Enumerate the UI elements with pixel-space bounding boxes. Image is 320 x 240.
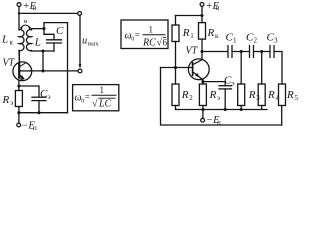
svg-text:к: к <box>215 32 219 40</box>
wire R3 bottom <box>240 106 242 110</box>
svg-text:п: п <box>33 4 37 12</box>
capacitor C2 plates <box>249 46 251 58</box>
node top rail right <box>200 14 203 17</box>
wire emitter to Ce <box>19 86 39 97</box>
node tank bottom <box>41 49 44 52</box>
capacitor C plates <box>47 39 62 41</box>
resistor Re1 lead bottom <box>18 107 20 113</box>
wire R4 bottom <box>261 106 263 110</box>
svg-text:R: R <box>207 27 215 39</box>
svg-text:=: = <box>135 30 140 40</box>
capacitor Ce2 plates <box>219 85 232 87</box>
svg-text:RC: RC <box>142 38 156 49</box>
svg-text:1: 1 <box>190 32 194 40</box>
svg-text:5: 5 <box>295 94 299 102</box>
formula box omega0 LC <box>73 85 119 111</box>
transistor VT1 base bar <box>18 64 20 77</box>
wire feedback loop <box>161 68 282 126</box>
resistor R4 <box>258 84 265 106</box>
svg-text:п: п <box>33 123 37 132</box>
svg-text:2: 2 <box>189 94 193 102</box>
transistor VT1 emitter <box>19 75 23 79</box>
wire emitter to Ce2 <box>203 81 225 83</box>
node L top <box>42 27 45 30</box>
svg-text:м: м <box>24 19 28 25</box>
svg-text:к: к <box>10 39 14 47</box>
svg-text:1: 1 <box>100 85 105 95</box>
resistor R2 <box>172 84 179 106</box>
wire chain to R5 <box>274 52 282 85</box>
svg-text:э: э <box>48 93 51 101</box>
terminal +Ep right <box>200 3 204 7</box>
wire VT2 emitter down <box>202 80 204 84</box>
node after C2 <box>260 50 263 53</box>
capacitor Ce1 bottom lead <box>38 101 40 113</box>
node base-tank junction <box>41 69 44 72</box>
node emitter right <box>201 80 204 83</box>
wire +Ep down right <box>201 6 203 22</box>
inductor L coil <box>26 30 31 51</box>
svg-text:LC: LC <box>98 99 112 110</box>
capacitor Ce1 plates <box>32 96 46 98</box>
wire capacitor C bottom lead <box>53 43 55 51</box>
node after C1 <box>240 50 243 53</box>
wire R1 to base junction <box>175 42 177 68</box>
formula box omega0 RC <box>121 20 168 49</box>
svg-text:R: R <box>267 89 275 101</box>
wire VT1 emitter down <box>18 81 20 86</box>
transistor VT2 collector <box>193 60 202 65</box>
wire capacitor C top lead <box>44 34 54 40</box>
wire -Ep rail A <box>176 109 268 111</box>
node R3 on rail <box>240 108 243 111</box>
svg-text:R: R <box>286 89 294 101</box>
node Ce1 bottom <box>37 111 40 114</box>
resistor R5 <box>279 84 286 106</box>
wire tank left vertical <box>43 23 45 35</box>
node top rail left <box>18 12 20 14</box>
inductor Lk coil <box>19 30 24 51</box>
svg-text:R: R <box>2 94 10 106</box>
resistor Re2 <box>199 84 206 106</box>
wire R3 drop <box>240 52 242 85</box>
svg-text:√: √ <box>92 99 98 110</box>
svg-text:6: 6 <box>163 38 168 48</box>
svg-text:э: э <box>232 80 235 88</box>
wire tank right vertical <box>67 23 69 113</box>
arrow u_vyh head <box>79 64 82 68</box>
svg-text:VT: VT <box>186 46 199 57</box>
wire chain segment 3 <box>254 51 270 53</box>
wire R2 bottom lead <box>175 106 177 110</box>
svg-text:4: 4 <box>276 94 280 102</box>
svg-text:п: п <box>217 119 221 127</box>
svg-text:вых: вых <box>88 40 99 47</box>
svg-text:L: L <box>34 37 41 49</box>
wire base to output <box>30 70 78 72</box>
node base junction right <box>174 66 177 69</box>
wire chain segment 1 <box>202 51 228 53</box>
svg-text:э: э <box>10 99 13 107</box>
node emitter left <box>17 84 20 87</box>
svg-text:2: 2 <box>254 37 258 45</box>
resistor R3 <box>238 84 245 106</box>
wire L top <box>32 29 45 30</box>
terminal output top <box>78 12 82 16</box>
transistor VT2 circle <box>188 59 209 80</box>
node collector junction <box>200 50 203 53</box>
terminal +Ep left <box>17 3 21 7</box>
svg-text:R: R <box>209 89 217 101</box>
transistor VT2 base bar <box>192 63 194 76</box>
svg-text:3: 3 <box>256 94 260 102</box>
wire Rk to collector <box>201 39 203 59</box>
svg-text:п: п <box>216 4 220 12</box>
resistor Rk <box>199 23 206 39</box>
transistor VT1 circle <box>13 62 32 81</box>
resistor Re1 <box>15 91 22 107</box>
svg-text:R: R <box>181 89 189 101</box>
svg-text:R: R <box>248 89 256 101</box>
wire R4 drop <box>261 52 263 85</box>
wire Lk to base of VT <box>18 51 20 62</box>
wire chain segment 2 <box>232 51 249 53</box>
wire tank bottom <box>32 50 55 52</box>
terminal output bottom <box>78 69 82 73</box>
node Re2 on rail <box>201 108 204 111</box>
wire +Ep down <box>18 7 20 30</box>
svg-text:L: L <box>1 34 8 46</box>
wire output arrow line <box>79 15 81 65</box>
resistor R1 lead top <box>175 16 177 26</box>
wire L bottom stub <box>31 50 33 53</box>
wire tank-bottom to base <box>42 51 44 71</box>
svg-text:R: R <box>182 27 190 39</box>
capacitor C3 plates <box>269 46 271 58</box>
transistor VT1 collector <box>18 51 20 65</box>
terminal -Ep left <box>18 113 20 123</box>
wire tank top rail <box>44 22 68 24</box>
wire R5 bottom to rail B <box>281 106 283 126</box>
svg-text:=: = <box>85 92 90 102</box>
wire bottom rail left circuit <box>19 112 68 114</box>
capacitor Ce2 bottom lead <box>224 89 226 110</box>
terminal -Ep right <box>202 110 204 119</box>
transistor VT2 base wire <box>161 67 193 69</box>
wire R2 top lead <box>175 68 177 85</box>
svg-text:э: э <box>217 94 220 102</box>
node Re1 bottom rail <box>17 111 20 114</box>
wire top rail <box>19 12 78 14</box>
node Ce2 on rail <box>224 108 227 111</box>
wire Re2 bottom lead <box>202 106 204 110</box>
capacitor Ce2 top lead <box>224 82 226 86</box>
svg-text:u: u <box>82 36 87 47</box>
svg-text:1: 1 <box>233 37 237 45</box>
svg-text:C: C <box>56 25 64 37</box>
svg-text:VT: VT <box>3 57 16 68</box>
mutual coupling M arrow <box>21 25 30 28</box>
capacitor C1 plates <box>227 46 229 58</box>
wire top rail right <box>176 15 203 17</box>
resistor Re1 lead <box>18 86 20 91</box>
transistor VT1 base lead <box>19 70 30 72</box>
svg-text:1: 1 <box>149 25 154 35</box>
resistor R1 <box>172 25 179 42</box>
svg-text:3: 3 <box>274 37 278 45</box>
transistor VT2 emitter <box>193 72 203 80</box>
